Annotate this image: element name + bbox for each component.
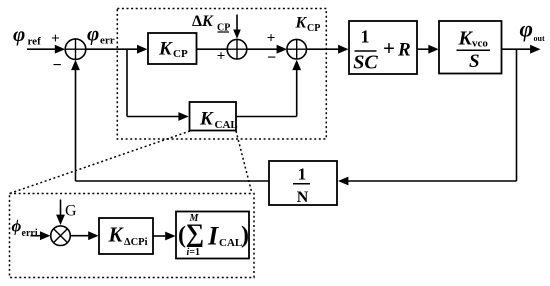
svg-text:K: K [199,109,214,130]
svg-text:+: + [267,30,276,46]
wire loop filter to VCO block [417,48,431,50]
callout dotted line right [236,131,252,194]
wire phi_erri into multiplier [31,235,44,237]
block loop filter 1/SC + R [349,21,417,74]
svg-text:ref: ref [28,36,42,48]
block KCAL [190,102,237,131]
wire S1 to KCP block [86,48,140,50]
svg-text:S: S [469,51,480,72]
svg-text:N: N [297,189,309,206]
block sum of ICAL [176,212,249,259]
svg-text:SC: SC [353,52,378,74]
dashed box (charge pump detail) [117,9,326,140]
block divider 1/N [269,161,337,205]
svg-text:1: 1 [298,165,307,184]
svg-text:K: K [108,223,125,247]
svg-text:−: − [267,49,276,66]
svg-text:i=1: i=1 [187,247,200,258]
svg-text:err: err [100,35,115,47]
wire KCP to summer S2 [197,48,228,50]
svg-text:φ: φ [87,22,99,46]
svg-text:CAL: CAL [219,237,242,249]
svg-text:CAL: CAL [215,119,238,131]
svg-text:+: + [217,48,226,64]
svg-text:G: G [65,203,77,220]
svg-text:out: out [534,34,545,43]
svg-text:I: I [207,222,219,251]
wire input to summer S1 [27,48,58,50]
wire feedback to divider [345,180,517,182]
wire Delta KCP arrow into S2 [236,15,238,32]
svg-text:+: + [51,31,60,47]
svg-text:M: M [189,213,200,224]
summer S3 [287,39,307,59]
wire feedback tap down [516,49,518,181]
wire KdCPi to sum block [153,235,168,237]
svg-text:erri: erri [22,228,38,239]
block KdCPi [99,218,153,254]
svg-text:ϕ: ϕ [12,217,22,236]
svg-text:CP: CP [173,48,188,60]
svg-text:1: 1 [361,27,370,47]
wire multiplier to KdCPi block [70,235,91,237]
svg-text:+: + [383,36,395,60]
svg-text:CP: CP [307,23,320,34]
wire branch down to KCAL [126,49,128,116]
svg-text:φ: φ [13,22,25,46]
block KCP [148,33,197,64]
block VCO Kvco/S [439,21,502,74]
wire divider to summer S1 [76,180,270,182]
svg-text:ΔCPi: ΔCPi [124,237,148,248]
svg-text:R: R [397,40,411,61]
multiplier M1 [51,226,71,246]
dashed box (KCAL detail) [10,194,255,278]
svg-text:): ) [241,223,249,249]
svg-text:K: K [295,15,308,32]
svg-text:φ: φ [520,16,533,41]
wire G arrow into multiplier [60,200,62,218]
callout dotted line left [10,131,191,194]
wire VCO to output [502,48,534,50]
svg-text:K: K [158,39,173,60]
wire S3 to loop filter block [307,48,342,50]
svg-text:vco: vco [472,38,488,50]
svg-text:−: − [52,57,61,74]
svg-text:ΔK: ΔK [192,13,214,30]
wire KCAL to summer S3 [237,116,297,118]
summer S1 [65,39,86,60]
wire S2 to summer S3 [247,48,280,50]
summer S2 [227,39,247,59]
